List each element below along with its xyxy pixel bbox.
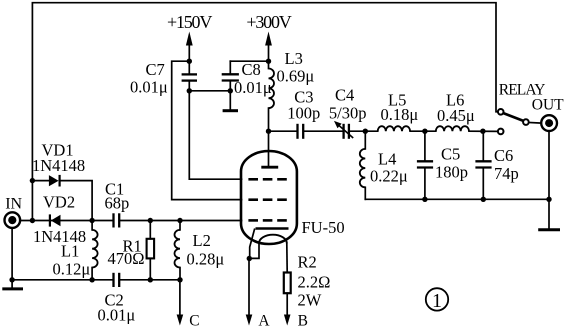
svg-text:OUT: OUT (532, 97, 564, 114)
svg-text:+300V: +300V (246, 12, 291, 32)
svg-text:2W: 2W (298, 291, 322, 310)
svg-text:+150V: +150V (167, 12, 212, 32)
svg-text:0.01μ: 0.01μ (234, 78, 272, 97)
svg-text:L3: L3 (285, 49, 303, 68)
svg-text:1: 1 (432, 290, 442, 312)
svg-text:R2: R2 (298, 253, 317, 272)
svg-text:5/30p: 5/30p (329, 103, 367, 122)
svg-text:0.01μ: 0.01μ (98, 306, 136, 325)
svg-text:68p: 68p (105, 194, 130, 213)
svg-text:C6: C6 (494, 146, 513, 165)
svg-text:1N4148: 1N4148 (32, 156, 85, 175)
svg-text:100p: 100p (287, 104, 320, 123)
svg-text:L1: L1 (61, 242, 79, 261)
svg-text:C4: C4 (335, 86, 354, 105)
svg-text:C7: C7 (146, 60, 165, 79)
svg-text:0.18μ: 0.18μ (381, 105, 419, 124)
svg-text:VD2: VD2 (43, 193, 75, 212)
svg-text:FU-50: FU-50 (302, 218, 345, 237)
svg-text:0.12μ: 0.12μ (53, 260, 91, 279)
svg-text:0.28μ: 0.28μ (187, 250, 225, 269)
svg-text:0.01μ: 0.01μ (130, 78, 168, 97)
svg-text:0.22μ: 0.22μ (370, 167, 408, 186)
svg-text:0.69μ: 0.69μ (277, 67, 315, 86)
svg-text:A: A (258, 313, 270, 329)
svg-text:74p: 74p (494, 164, 519, 183)
svg-text:470Ω: 470Ω (108, 249, 145, 268)
svg-text:C: C (189, 313, 199, 329)
svg-text:0.45μ: 0.45μ (437, 106, 475, 125)
svg-text:180p: 180p (435, 163, 468, 182)
svg-text:L2: L2 (193, 231, 211, 250)
svg-text:C5: C5 (441, 145, 460, 164)
svg-text:B: B (298, 313, 308, 329)
svg-text:C8: C8 (242, 60, 261, 79)
svg-text:2.2Ω: 2.2Ω (298, 273, 331, 292)
svg-text:IN: IN (5, 196, 22, 213)
